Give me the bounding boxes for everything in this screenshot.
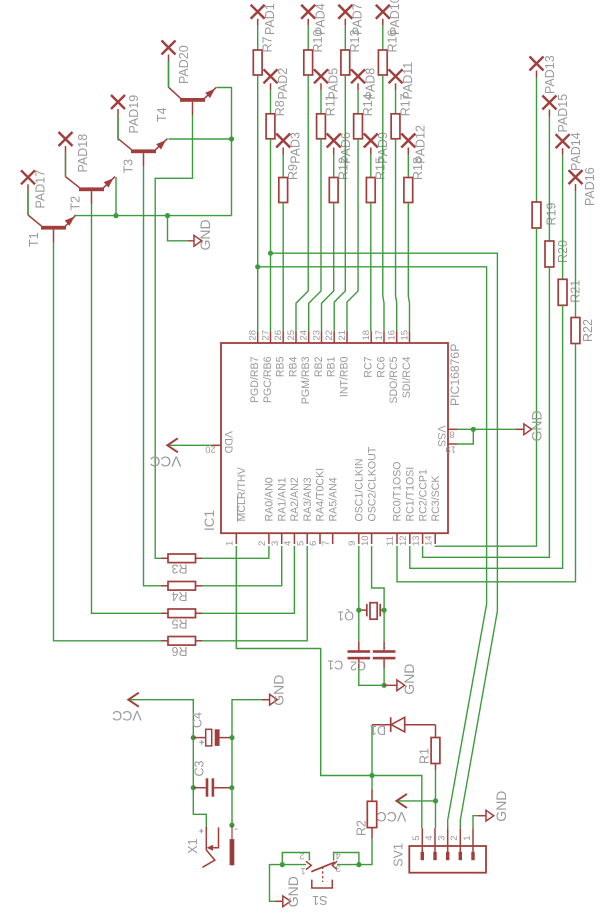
svg-text:GND: GND [197, 219, 213, 250]
pad PAD13 [530, 57, 544, 71]
wire VCC to junction [398, 800, 436, 802]
junction crystal left [356, 608, 361, 613]
resistor R3 [161, 554, 202, 576]
ground GND (VSS) [524, 424, 532, 435]
svg-text:R22: R22 [581, 319, 595, 342]
pin 28 PGD/RB7 [248, 330, 262, 403]
pin 14 RC3/SCK [423, 476, 442, 546]
pin 4 SV1 [424, 828, 437, 860]
pad PAD12 [401, 134, 415, 148]
junction crystal right [382, 608, 387, 613]
svg-text:12: 12 [398, 535, 409, 546]
svg-text:Q1: Q1 [337, 609, 354, 623]
transistor T4 [169, 55, 217, 116]
resistor R16 [378, 50, 387, 75]
pad PAD7 [338, 5, 352, 19]
wire emitter rail [74, 215, 232, 217]
pin 8 VSS [435, 426, 458, 447]
svg-text:RB1: RB1 [326, 356, 338, 377]
pin 27 PGC/RB6 [260, 330, 274, 403]
pin 3 SV1 [437, 828, 450, 860]
svg-text:PAD17: PAD17 [34, 170, 48, 209]
wire PAD16 to R22 [575, 184, 577, 191]
wire R12 to IC pin [322, 203, 334, 332]
svg-text:VCC: VCC [112, 708, 142, 724]
pad PAD5 [314, 69, 328, 83]
pad PAD16 [569, 170, 583, 184]
svg-text:T2: T2 [68, 196, 82, 211]
svg-text:PGC/RB6: PGC/RB6 [262, 356, 274, 403]
wire PAD14 to R21 [562, 148, 564, 155]
svg-text:T4: T4 [155, 107, 169, 122]
pad PAD1 [251, 5, 265, 19]
pad PAD3 [276, 134, 290, 148]
pin 1 MCLR/THV [225, 466, 248, 546]
svg-text:PAD11: PAD11 [401, 62, 415, 100]
wire R15 to IC pin [370, 203, 372, 332]
svg-text:GND: GND [528, 410, 544, 441]
pin 2 RA0/AN0 [257, 477, 276, 546]
svg-text:RA5/AN4: RA5/AN4 [327, 477, 339, 521]
junction VCC/R1/SV1-4 [433, 798, 438, 803]
wire VSS pins to ground [458, 428, 517, 430]
svg-text:27: 27 [260, 330, 271, 341]
pin 5 SV1 [411, 828, 424, 860]
svg-text:5: 5 [411, 836, 422, 841]
pin 13 RC2/CCP1 [411, 469, 430, 546]
svg-text:5: 5 [295, 541, 306, 546]
wire R4 to pin 3 [202, 546, 282, 586]
svg-text:RC2/CCP1: RC2/CCP1 [417, 469, 429, 522]
svg-text:GND: GND [285, 876, 301, 907]
capacitor C1 [373, 641, 396, 668]
wire T3 base to R4 [144, 166, 162, 585]
resistor R2 [367, 776, 376, 839]
svg-text:RA0/AN0: RA0/AN0 [264, 477, 276, 521]
svg-text:PAD20: PAD20 [177, 45, 191, 84]
svg-text:PAD18: PAD18 [76, 134, 90, 173]
wire R11 to IC pin [309, 139, 321, 332]
svg-text:C4: C4 [191, 712, 205, 728]
junction VSS pins [471, 427, 476, 432]
wire R21 to IC pin [410, 305, 563, 568]
junction T3/T4 emitters [229, 136, 234, 141]
junction C1/C2 ground [382, 683, 387, 688]
svg-text:RC7: RC7 [363, 356, 375, 377]
junction S1 right [356, 862, 361, 867]
svg-text:PAD16: PAD16 [583, 167, 597, 206]
pad PAD4 [301, 5, 315, 19]
svg-text:IC1: IC1 [202, 510, 217, 531]
wire pin1 MCLR net [236, 546, 421, 828]
svg-text:PAD13: PAD13 [543, 55, 557, 94]
svg-text:GND: GND [401, 664, 417, 695]
wire PAD6 to R12 [333, 148, 335, 155]
wire R2 to S1 [359, 839, 372, 865]
pad PAD20 [162, 41, 176, 55]
svg-text:R2: R2 [355, 820, 369, 836]
svg-text:28: 28 [248, 330, 259, 341]
wire T4 emitter [217, 88, 232, 216]
pad PAD14 [556, 134, 570, 148]
svg-text:2: 2 [299, 850, 304, 861]
pin 24 PGM/RB3 [299, 330, 313, 404]
svg-text:PAD19: PAD19 [127, 95, 141, 134]
wire PAD20 to T4 collector [168, 61, 170, 88]
svg-text:R5: R5 [171, 617, 187, 631]
wire VCC rail [130, 700, 206, 827]
resistor R18 [404, 178, 413, 203]
capacitor C2 [348, 641, 371, 668]
wire PAD12 to R18 [407, 148, 409, 155]
wire S1 to ground [270, 865, 283, 902]
svg-text:PAD5: PAD5 [326, 68, 340, 100]
svg-text:PAD1: PAD1 [263, 3, 277, 35]
pin 23 RB2 [311, 330, 325, 377]
svg-text:PAD12: PAD12 [414, 125, 428, 164]
svg-text:VSS: VSS [435, 426, 447, 447]
wire D1 anode drop [371, 725, 373, 776]
switch S1 [306, 861, 337, 888]
svg-text:C1: C1 [327, 657, 343, 671]
pin 1 SV1 [462, 828, 475, 860]
svg-text:15: 15 [399, 330, 410, 341]
svg-text:26: 26 [273, 330, 284, 341]
pin 21 INT/RB0 [337, 330, 351, 397]
supply VCC (battery) [128, 693, 139, 707]
IC U1 IC1 PIC16876P box [221, 343, 448, 533]
svg-text:VDD: VDD [222, 431, 234, 454]
ground GND (S1) [283, 896, 291, 907]
transistor T2 [66, 146, 116, 204]
wire VCC to VDD [169, 444, 212, 446]
svg-text:18: 18 [361, 330, 372, 341]
wire T2 base to R5 [92, 204, 162, 613]
svg-text:23: 23 [311, 330, 322, 341]
wire PAD8 to R14 [357, 83, 359, 90]
junction C4 left [191, 735, 196, 740]
svg-text:C2: C2 [350, 659, 366, 673]
junction C3 left [191, 785, 196, 790]
wire T3 emitter [169, 138, 232, 140]
svg-text:2: 2 [257, 541, 268, 546]
resistor R11 [317, 114, 326, 139]
wire PAD15 to R20 [548, 110, 550, 117]
wire R8 to IC pin [270, 139, 272, 332]
svg-text:21: 21 [337, 330, 348, 341]
wire PAD9 to R15 [370, 148, 372, 155]
wire rail to ground [168, 216, 189, 241]
pad PAD6 [327, 134, 341, 148]
wire R9 to IC pin [282, 203, 284, 332]
pad PAD10 [376, 5, 390, 19]
resistor R19 [532, 202, 541, 228]
junction C4 right [229, 735, 234, 740]
pin 15 SDI/RC4 [399, 330, 413, 398]
wire S1 left contacts loop [282, 853, 309, 865]
pin 17 RC6 [374, 330, 388, 378]
resistor R10 [304, 50, 313, 75]
resistor R6 [161, 637, 202, 659]
svg-text:10: 10 [360, 535, 371, 546]
svg-text:R1: R1 [418, 748, 432, 764]
svg-text:X1: X1 [186, 838, 200, 853]
junction X1 minus [229, 823, 234, 828]
svg-text:SV1: SV1 [392, 843, 406, 867]
capacitor C3 [193, 778, 231, 796]
svg-text:2: 2 [449, 836, 460, 841]
pad PAD19 [111, 95, 125, 109]
svg-text:RA1/AN1: RA1/AN1 [276, 477, 288, 521]
svg-text:RC1/T1OSI: RC1/T1OSI [405, 467, 417, 522]
pin 22 RB1 [324, 330, 338, 377]
svg-text:PAD15: PAD15 [556, 94, 570, 133]
pad PAD8 [351, 69, 365, 83]
svg-text:RB4: RB4 [288, 356, 300, 377]
wire crystal right to C1 [383, 610, 385, 641]
wire PAD11 to R17 [395, 83, 397, 90]
wire net pin28/R7 to SV1 pin3 [258, 267, 487, 829]
junction C3 right [229, 785, 234, 790]
pin 5 RA3/AN3 [295, 477, 314, 546]
resistor R15 [366, 178, 375, 203]
svg-text:PAD8: PAD8 [363, 68, 377, 100]
wire R18 to IC pin [408, 203, 409, 332]
svg-text:RA2/AN2: RA2/AN2 [289, 477, 301, 521]
svg-text:C3: C3 [192, 760, 206, 776]
wire T2 emitter to rail [115, 177, 117, 216]
svg-text:9: 9 [347, 541, 358, 546]
svg-text:R19: R19 [544, 203, 558, 226]
svg-text:R7: R7 [260, 36, 274, 52]
wire R22 to IC pin [397, 344, 576, 582]
wire PAD5 to R11 [320, 83, 322, 90]
wire PAD13 to R19 [536, 71, 538, 78]
svg-text:INT/RB0: INT/RB0 [339, 356, 351, 397]
pin 12 RC1/T1OSI [398, 467, 417, 546]
svg-text:PGM/RB3: PGM/RB3 [300, 356, 312, 404]
wire R3 to pin 2 [202, 546, 269, 558]
wire net pin27/R8 to SV1 pin2 [271, 253, 498, 828]
pin 9 OSC1/CLKIN [347, 459, 366, 547]
svg-text:14: 14 [423, 535, 434, 546]
wire PAD10 to R16 [382, 19, 384, 26]
connector SV1 [409, 846, 486, 873]
resistor R5 [161, 609, 202, 631]
pin 6 RA4/T0CKI [308, 468, 327, 546]
junction GND drop on rail [165, 213, 170, 218]
svg-text:R4: R4 [171, 589, 187, 603]
ground GND (SV1) [486, 810, 494, 821]
pin 19 VSS [445, 444, 457, 455]
resistor R12 [329, 178, 338, 203]
resistor R4 [161, 582, 202, 604]
pin 10 OSC2/CLKOUT [360, 446, 379, 546]
svg-text:T3: T3 [121, 159, 135, 174]
svg-text:17: 17 [374, 330, 385, 341]
svg-text:PAD14: PAD14 [569, 132, 583, 171]
pad PAD15 [542, 96, 556, 110]
wire R5 to pin 4 [202, 546, 294, 613]
svg-text:RB5: RB5 [275, 356, 287, 377]
resistor R7 [253, 50, 262, 75]
pin 18 RC7 [361, 330, 375, 378]
svg-text:1: 1 [462, 836, 473, 841]
resistor R17 [391, 114, 400, 139]
supply VCC (SV1) [396, 794, 407, 808]
wire C2 to ground [359, 668, 384, 685]
pad PAD9 [364, 134, 378, 148]
crystal Q1 [359, 603, 384, 620]
supply VCC (VDD) [167, 438, 178, 452]
wire T4 base to R3 [155, 115, 192, 558]
junction MCLR net [369, 773, 374, 778]
svg-text:SDO/RC5: SDO/RC5 [388, 356, 400, 403]
junction pin28 bus [255, 264, 260, 269]
resistor R9 [279, 178, 288, 203]
svg-text:GND: GND [271, 675, 287, 706]
wire R17 to IC pin [396, 139, 397, 332]
svg-text:13: 13 [411, 535, 422, 546]
wire PAD19 to T3 collector [117, 116, 119, 141]
junction pin27 bus [268, 251, 273, 256]
svg-text:1: 1 [301, 865, 306, 876]
svg-text:GND: GND [493, 791, 509, 822]
svg-text:4: 4 [424, 836, 435, 841]
svg-text:S1: S1 [312, 893, 327, 907]
wire SV1 pin1 to ground [473, 816, 478, 829]
svg-text:D1: D1 [370, 723, 386, 737]
wire pin9 OSC1 to crystal [358, 546, 360, 610]
wire PAD1 to R7 [257, 19, 259, 26]
pad PAD11 [389, 69, 403, 83]
wire R7 to IC pin [257, 75, 259, 332]
wire R1 to SV1 pin4 [435, 770, 437, 828]
diode D1 [372, 717, 436, 732]
pin 2 SV1 [449, 828, 462, 860]
svg-text:RC6: RC6 [376, 356, 388, 377]
wire R16 to IC pin [383, 75, 384, 332]
svg-text:24: 24 [299, 330, 310, 341]
capacitor C4 [193, 729, 232, 746]
wire ground column [232, 700, 262, 825]
pin 11 RC0/T1OSO [385, 461, 404, 546]
svg-text:11: 11 [385, 536, 396, 546]
pad PAD17 [21, 170, 35, 184]
svg-text:16: 16 [387, 330, 398, 341]
wire R13 to IC pin [334, 75, 345, 332]
battery X1 [199, 825, 237, 867]
pin 4 RA2/AN2 [283, 477, 302, 546]
pin 16 SDO/RC5 [387, 330, 401, 404]
wire PAD3 to R9 [282, 148, 284, 155]
svg-text:3: 3 [270, 541, 281, 546]
svg-text:VCC: VCC [377, 809, 407, 825]
svg-text:OSC2/CLKOUT: OSC2/CLKOUT [366, 446, 378, 521]
pin 26 RB5 [273, 330, 287, 377]
wire PAD7 to R13 [344, 19, 346, 26]
svg-text:R3: R3 [171, 562, 187, 576]
svg-text:PIC16876P: PIC16876P [448, 344, 462, 406]
svg-text:3: 3 [437, 836, 448, 841]
svg-text:1: 1 [225, 541, 236, 546]
svg-text:R8: R8 [273, 100, 287, 116]
resistor R20 [545, 241, 554, 267]
wire T1 base to R6 [54, 243, 162, 641]
transistor T3 [118, 109, 168, 166]
junction T2 emitter on rail [113, 213, 118, 218]
svg-text:25: 25 [286, 330, 297, 341]
pad PAD18 [59, 132, 73, 146]
wire PAD4 to R10 [307, 19, 309, 26]
svg-text:PAD2: PAD2 [276, 68, 290, 100]
resistor R14 [354, 114, 363, 139]
svg-text:RC0/T1OSO: RC0/T1OSO [392, 461, 404, 521]
resistor R13 [341, 50, 350, 75]
wire pin10 OSC2 to crystal [372, 546, 385, 610]
pin labels S1 [299, 850, 341, 876]
wire crystal left to C2 [358, 610, 360, 641]
svg-text:19: 19 [445, 444, 456, 455]
wire R20 to IC pin [423, 267, 550, 557]
ground GND (emitter rail) [194, 235, 202, 246]
pad PAD2 [264, 69, 278, 83]
svg-text:RA4/T0CKI: RA4/T0CKI [315, 468, 327, 522]
svg-text:4: 4 [336, 850, 341, 861]
svg-text:OSC1/CLKIN: OSC1/CLKIN [354, 459, 366, 522]
ground GND (crystal) [397, 680, 405, 691]
resistor R8 [266, 114, 275, 139]
svg-text:3: 3 [336, 863, 341, 874]
pin 7 RA5/AN4 [321, 477, 340, 546]
svg-text:RC3/SCK: RC3/SCK [430, 476, 442, 522]
svg-text:T1: T1 [27, 232, 41, 247]
ground GND (battery) [270, 694, 278, 705]
wire PAD18 to T2 collector [65, 153, 67, 176]
svg-text:SDI/RC4: SDI/RC4 [401, 356, 413, 398]
wire PAD17 to T1 collector [27, 191, 29, 215]
svg-text:PAD3: PAD3 [289, 132, 303, 164]
svg-text:22: 22 [324, 330, 335, 341]
pin 3 RA1/AN1 [270, 477, 289, 546]
wire PAD2 to R8 [270, 83, 272, 90]
svg-text:PAD4: PAD4 [314, 3, 328, 35]
svg-text:PGD/RB7: PGD/RB7 [249, 356, 261, 403]
svg-text:RA3/AN3: RA3/AN3 [302, 477, 314, 521]
svg-text:R6: R6 [171, 644, 187, 658]
transistor T1 [28, 184, 76, 243]
wire C1 to ground [383, 668, 385, 685]
svg-text:8: 8 [449, 429, 454, 440]
pin 20 VDD [205, 431, 234, 455]
svg-text:RB2: RB2 [313, 356, 325, 377]
svg-text:6: 6 [308, 541, 319, 546]
resistor R1 [431, 725, 440, 770]
svg-text:4: 4 [283, 541, 294, 546]
wire S1 right contacts loop [334, 853, 359, 865]
wire R6 to pin 5 [202, 546, 307, 641]
wire R14 to IC pin [347, 139, 358, 332]
svg-text:PAD7: PAD7 [351, 3, 365, 35]
resistor R22 [571, 318, 580, 344]
junction S1 left [280, 862, 285, 867]
resistor R21 [558, 279, 567, 305]
pin 25 RB4 [286, 330, 300, 377]
svg-text:PAD10: PAD10 [388, 0, 402, 35]
wire R19 to IC pin [435, 228, 536, 546]
svg-text:R9: R9 [286, 164, 300, 180]
svg-text:7: 7 [321, 541, 332, 546]
